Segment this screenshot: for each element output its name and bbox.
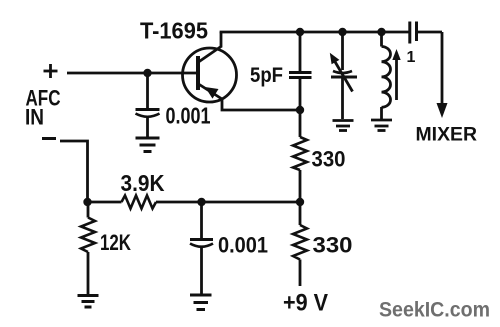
wire top rail — [220, 31, 409, 34]
svg-text:5pF: 5pF — [250, 64, 283, 87]
node top rail C3 — [296, 28, 304, 36]
capacitor C2 0.001 — [190, 202, 213, 294]
terminal + — [44, 64, 58, 78]
wire base input — [67, 72, 198, 75]
ground under L1 — [371, 120, 392, 131]
ground under C1 — [136, 138, 160, 152]
svg-text:12K: 12K — [100, 230, 131, 255]
svg-text:330: 330 — [312, 147, 346, 172]
wire mixer drop — [441, 32, 444, 104]
node top rail L1 — [377, 28, 385, 36]
capacitor C1 0.001 — [136, 73, 160, 137]
ground under R2 — [78, 296, 99, 308]
svg-text:+9 V: +9 V — [283, 290, 328, 317]
svg-text:0.001: 0.001 — [218, 233, 268, 258]
node bias mid — [197, 198, 205, 206]
svg-text:T-1695: T-1695 — [140, 18, 208, 44]
resistor R1 3.9K — [122, 196, 157, 209]
terminal - — [42, 137, 56, 140]
wire bias rail right — [156, 201, 300, 204]
svg-text:330: 330 — [313, 233, 353, 258]
node emitter rail — [296, 106, 304, 114]
wire bias rail — [88, 201, 122, 204]
variable capacitor C4 — [331, 32, 357, 119]
resistor R2 12K — [81, 202, 95, 294]
capacitor C5 coupling — [410, 22, 442, 44]
svg-text:3.9K: 3.9K — [121, 170, 165, 196]
svg-text:IN: IN — [25, 105, 44, 130]
capacitor C3 5pF — [289, 32, 312, 110]
resistor R3 330 — [293, 110, 307, 202]
inductor arrow — [395, 58, 398, 100]
svg-text:0.001: 0.001 — [166, 103, 211, 129]
node bias left — [83, 198, 91, 206]
wire minus input — [60, 141, 88, 202]
variable capacitor arrow head — [330, 53, 340, 65]
wire emitter to node — [222, 98, 300, 110]
transistor emitter arrow — [205, 87, 219, 99]
ground under C4 — [333, 121, 354, 131]
node bias right — [296, 198, 304, 206]
svg-text:1: 1 — [407, 49, 416, 66]
mixer arrow head — [437, 103, 448, 118]
wire collector riser — [220, 32, 223, 48]
svg-text:MIXER: MIXER — [416, 124, 478, 146]
node top rail C4 — [338, 28, 346, 36]
node base junction — [143, 69, 151, 77]
ground under C2 — [190, 295, 212, 310]
inductor L1 — [382, 32, 391, 119]
resistor R4 330 — [293, 202, 307, 286]
svg-text:SeekIC.com: SeekIC.com — [379, 298, 490, 322]
transistor Q1 — [183, 47, 237, 103]
